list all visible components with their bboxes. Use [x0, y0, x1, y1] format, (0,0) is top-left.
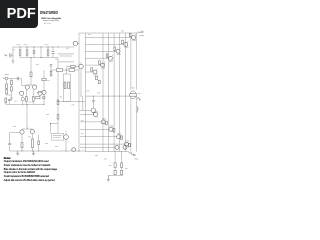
wire top-left rail — [13, 46, 74, 48]
resistor R10 — [10, 79, 12, 96]
resistor R19 — [21, 134, 23, 151]
wire x27 branch — [26, 105, 28, 130]
terminal IN — [5, 77, 8, 80]
transistor Q7 — [30, 129, 34, 133]
wire Q6 base bus — [10, 133, 20, 152]
transistor Q10 — [132, 36, 136, 40]
wire y70 line — [51, 69, 79, 71]
resistor R2 — [26, 47, 28, 58]
label R3 value — [45, 43, 49, 46]
capacitor C5 — [8, 99, 11, 100]
transistor Q11 — [124, 42, 128, 46]
resistor R15 — [32, 89, 34, 104]
resistor R17 — [5, 103, 7, 105]
resistor R39 — [50, 70, 52, 77]
terminal OUT — [136, 96, 141, 113]
transistor Q15 — [93, 70, 97, 74]
wire base row 11 — [80, 136, 117, 138]
wire base row 10 — [80, 128, 109, 130]
terminal V2 squiggle — [4, 54, 7, 56]
resistor R25 — [106, 54, 108, 57]
resistor R5 — [57, 115, 59, 120]
resistor R4 — [57, 100, 59, 105]
resistor R20 — [31, 134, 33, 151]
resistor R12 — [7, 80, 12, 98]
junction circle on rail — [72, 148, 76, 152]
resistor R14 — [25, 89, 27, 104]
wire base row 6 — [85, 71, 93, 73]
wire bias tap — [50, 124, 58, 134]
resistor R16 — [42, 78, 46, 80]
wire column 4 — [119, 33, 121, 152]
resistor R37 — [114, 170, 116, 174]
ground GND3 — [32, 151, 35, 156]
resistor R11 — [11, 87, 13, 91]
wire join — [108, 167, 123, 175]
transistor Q26 — [115, 145, 119, 149]
wire output bus — [85, 95, 129, 97]
resistor R34 — [113, 129, 115, 132]
resistor R26 — [99, 61, 101, 64]
wire base row 5 — [85, 64, 100, 66]
resistor R21 — [38, 135, 40, 151]
node B — [50, 123, 51, 124]
resistor R13 tail — [30, 58, 32, 86]
wire base row 1 — [85, 37, 131, 39]
wire base row 13 — [80, 147, 115, 149]
resistor R33 — [106, 121, 108, 124]
wire — [40, 47, 42, 58]
resistor R27 — [91, 68, 93, 71]
capacitor C1 — [10, 53, 11, 57]
wire column 3 — [113, 33, 115, 152]
annotation text line3 — [57, 61, 74, 62]
wire mid bias line — [20, 57, 58, 59]
wire bottom rail right — [85, 151, 128, 153]
resistor R8 — [64, 82, 66, 89]
wire feedback mid line — [58, 101, 85, 103]
resistor R29 — [98, 80, 100, 84]
title — [40, 10, 58, 15]
terminal -V — [128, 152, 133, 155]
wire left drop — [12, 47, 14, 61]
thermal note box — [52, 133, 64, 140]
ground GND1 — [12, 61, 15, 63]
resistor R24 — [114, 47, 116, 50]
label R2 value — [24, 43, 28, 46]
wire x85.3 vertical — [84, 33, 86, 152]
capacitor C2 — [52, 47, 54, 58]
transistor leg stubs — [135, 34, 136, 41]
wire base row 12 — [80, 143, 124, 145]
resistor R35 — [121, 136, 123, 139]
transistor Q5 — [42, 90, 46, 94]
notes heading — [4, 158, 11, 160]
resistor R22 — [129, 33, 131, 36]
transistor Q8 — [64, 135, 69, 140]
transistor Q20 — [94, 113, 98, 117]
transistor Q19 driver — [91, 108, 96, 113]
bias network box — [63, 74, 70, 102]
transistor Q24 — [124, 142, 128, 146]
annotation text — [58, 53, 75, 54]
transistor Q17 driver — [73, 41, 77, 45]
resistor R32 — [121, 152, 123, 163]
resistor R28 — [96, 76, 98, 80]
terminal +V — [138, 32, 141, 33]
transistor Q2 — [33, 85, 37, 89]
wire tail split — [27, 84, 35, 86]
transistor Q4 — [38, 91, 42, 95]
wire column 1 — [102, 33, 104, 152]
resistor R23 — [122, 40, 124, 43]
transistor Q13 — [108, 56, 112, 60]
wire low horizontal — [6, 104, 44, 106]
wire column 5 — [124, 33, 126, 152]
wire — [37, 70, 44, 105]
diode D1 — [33, 47, 35, 58]
PDF badge — [0, 0, 38, 28]
resistor R36 — [129, 143, 131, 146]
label R14 value — [28, 101, 31, 104]
wire base row 8 — [80, 114, 93, 116]
wire top rail right — [79, 32, 138, 34]
wire — [11, 54, 13, 56]
transistor Q18 driver — [79, 64, 83, 68]
junction dots — [19, 46, 22, 49]
wire column 6 — [130, 33, 132, 152]
transistor Q6 — [20, 130, 24, 134]
wire base row 9 — [80, 121, 101, 123]
resistor R1 — [19, 47, 21, 58]
resistor R40 — [36, 96, 40, 99]
label R16 value — [47, 79, 50, 82]
wire — [8, 78, 17, 80]
resistor R38 — [121, 170, 123, 174]
wire bases link — [22, 127, 32, 130]
inductor L1 with resistor — [130, 91, 137, 99]
node A — [40, 57, 41, 58]
ground GND2 — [10, 98, 13, 100]
resistor R31 — [114, 152, 116, 163]
transistor Q1 — [25, 85, 29, 89]
transistor Q3 — [20, 91, 24, 95]
resistor R9 — [68, 82, 70, 89]
transistor Q21 — [101, 120, 105, 124]
transistor Q22 — [109, 127, 113, 131]
wire x58 vertical — [57, 58, 59, 134]
transistor Q23 — [117, 135, 121, 139]
transistor Q25 — [123, 145, 127, 149]
capacitor C8 — [8, 143, 11, 144]
ground GND5 — [16, 151, 19, 156]
wire base row 2 — [85, 43, 123, 45]
capacitor C4 — [17, 77, 18, 80]
wire column 2 — [108, 33, 110, 152]
resistor R3 — [47, 47, 49, 58]
label C6 value — [14, 100, 17, 103]
ground GND4 — [107, 175, 110, 182]
resistor R7 — [69, 69, 75, 72]
resistor R30 — [71, 65, 75, 67]
label R1 value — [17, 43, 21, 46]
capacitor C9 — [42, 96, 45, 99]
resistor R12b — [6, 90, 8, 94]
wire x79 vertical — [78, 33, 80, 151]
capacitor C7 — [92, 101, 95, 102]
resistor R6 — [57, 69, 63, 72]
transistor Q14 — [101, 63, 105, 67]
wire bottom rail — [10, 150, 86, 152]
wire base row 4 — [85, 57, 108, 59]
value labels — [132, 39, 135, 42]
wire base row 3 — [85, 50, 116, 52]
capacitor C6 electrolytic — [21, 98, 24, 101]
wire column 7 — [136, 33, 138, 152]
wire input to base — [19, 79, 26, 86]
transistor Q12 — [116, 49, 120, 53]
notes lines — [4, 161, 49, 163]
capacitor C3 — [50, 65, 53, 66]
